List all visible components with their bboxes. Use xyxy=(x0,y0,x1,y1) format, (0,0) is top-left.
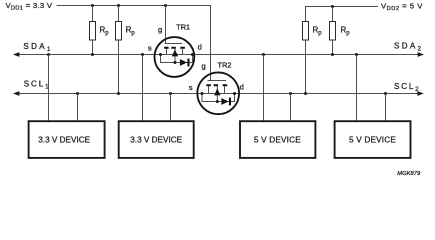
node VDD2-Rp4 junction xyxy=(331,5,334,8)
TR1 bulk stub xyxy=(174,49,176,63)
TR2 source-drain line xyxy=(202,93,235,95)
node SDA1-device1 junction xyxy=(47,53,50,56)
svg-text:g: g xyxy=(202,62,206,71)
wire SDA1 line xyxy=(14,54,161,56)
TR1 body-diode path xyxy=(161,55,193,63)
arrow SDA1 left xyxy=(13,52,19,57)
node SCL2-Rp3 junction xyxy=(304,92,307,95)
wire device3 SDA lead xyxy=(263,55,265,122)
TR2 bulk node xyxy=(216,100,219,103)
transistor TR2 (MOS-FET, SCL) xyxy=(197,72,239,114)
TR2 bulk stub xyxy=(216,86,218,102)
wire Rp4 top lead xyxy=(332,7,334,22)
resistor Rp3 xyxy=(303,22,309,41)
svg-text:s: s xyxy=(148,44,152,53)
TR1 gate plate xyxy=(165,43,182,45)
TR1 drain node xyxy=(191,53,194,56)
wire TR2 gate lead (rail corner down) xyxy=(210,6,212,81)
wire Rp2 top lead xyxy=(118,6,120,22)
arrow SCL2 right xyxy=(417,91,423,96)
block 3.3 V DEVICE 2 xyxy=(119,121,194,158)
TR1 body diode xyxy=(180,59,187,66)
wire device2 SCL lead xyxy=(170,94,172,122)
svg-text:TR2: TR2 xyxy=(218,61,232,70)
node SCL2-device4 junction xyxy=(384,92,387,95)
wire Rp1 top lead xyxy=(92,6,94,22)
TR2 channel bars xyxy=(206,84,227,86)
svg-text:g: g xyxy=(158,25,162,34)
wire VDD1 rail xyxy=(57,5,211,7)
wire device1 SCL lead xyxy=(77,94,79,122)
wire SDA2 line xyxy=(193,54,419,56)
node SDA1-Rp1 junction xyxy=(91,53,94,56)
wire Rp4 bottom lead xyxy=(332,40,334,55)
wire device4 SCL lead xyxy=(385,94,387,122)
svg-text:s: s xyxy=(189,83,193,92)
svg-text:5 V DEVICE: 5 V DEVICE xyxy=(254,135,301,144)
wire TR1 gate lead xyxy=(165,6,167,44)
TR2 body diode xyxy=(221,98,228,105)
node SDA2-Rp4 junction xyxy=(331,53,334,56)
resistor Rp2 xyxy=(116,22,122,41)
resistor Rp1 xyxy=(90,22,96,41)
TR2 source/drain channel stubs xyxy=(209,86,225,94)
node VDD1-Rp1 junction xyxy=(91,4,94,7)
svg-text:3.3 V DEVICE: 3.3 V DEVICE xyxy=(38,135,90,144)
node SDA2-device4 junction xyxy=(355,53,358,56)
TR1 substrate arrow xyxy=(172,49,178,56)
svg-text:d: d xyxy=(198,43,202,52)
block 5 V DEVICE 2 xyxy=(335,121,411,158)
TR1 source-drain line xyxy=(161,54,193,56)
wire SCL1 line xyxy=(14,93,202,95)
TR2 body-diode path xyxy=(202,94,235,102)
svg-text:d: d xyxy=(240,83,244,92)
arrow SDA2 right xyxy=(418,52,424,57)
TR2 drain node xyxy=(233,92,236,95)
transistor TR1 (MOS-FET, SDA) xyxy=(155,37,195,77)
TR2 substrate arrow xyxy=(214,88,220,95)
node VDD1-TR1 gate junction xyxy=(164,4,167,7)
wire device4 SDA lead xyxy=(356,55,358,122)
svg-text:TR1: TR1 xyxy=(176,23,190,32)
node SDA2-device3 junction xyxy=(262,53,265,56)
wire SCL2 line xyxy=(234,93,417,95)
node SCL1-device1 junction xyxy=(76,92,79,95)
node SCL1-device2 junction xyxy=(169,92,172,95)
resistor Rp4 xyxy=(330,22,336,41)
wire device3 SCL lead xyxy=(290,94,292,122)
TR1 source/drain channel stubs xyxy=(167,49,183,55)
node SCL1-Rp2 junction xyxy=(117,92,120,95)
TR1 bulk node xyxy=(174,61,177,64)
TR1 channel bars xyxy=(164,47,185,49)
TR2 source node xyxy=(201,92,204,95)
TR1 body circle xyxy=(155,37,195,77)
arrow SCL1 left xyxy=(13,91,19,96)
node SDA1-device2 junction xyxy=(141,53,144,56)
node VDD1-Rp2 junction xyxy=(117,4,120,7)
wire Rp1 bottom lead xyxy=(92,40,94,55)
wire VDD2 rail xyxy=(306,7,379,22)
svg-text:5 V DEVICE: 5 V DEVICE xyxy=(349,135,396,144)
wire device1 SDA lead xyxy=(48,55,50,122)
wire device2 SDA lead xyxy=(142,55,144,122)
TR2 gate plate xyxy=(208,80,227,82)
svg-text:3.3 V DEVICE: 3.3 V DEVICE xyxy=(130,135,182,144)
wire Rp2 bottom lead (crosses SDA1) xyxy=(118,40,120,94)
svg-text:MGK879: MGK879 xyxy=(397,171,421,177)
block 3.3 V DEVICE 1 xyxy=(29,121,105,158)
wire Rp3 bottom lead (crosses SDA2) xyxy=(305,40,307,94)
TR1 source node xyxy=(159,53,162,56)
TR2 body circle xyxy=(197,72,239,114)
block 5 V DEVICE 1 xyxy=(240,121,315,158)
node SCL2-device3 junction xyxy=(289,92,292,95)
